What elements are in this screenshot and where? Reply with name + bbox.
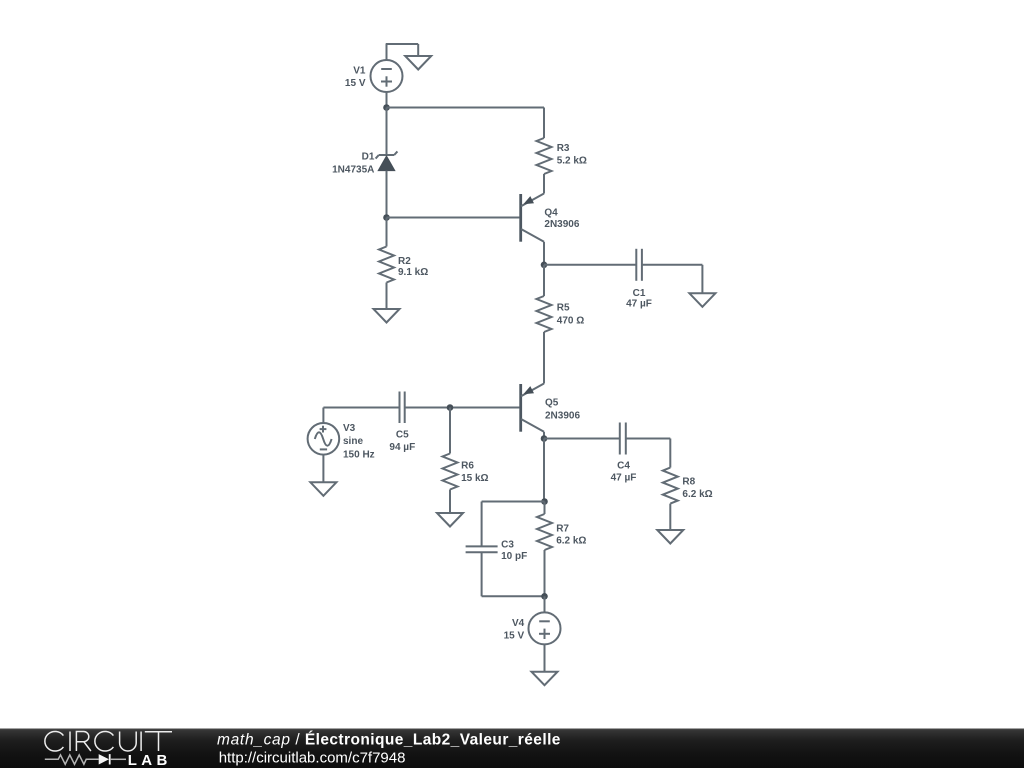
- svg-text:V4: V4: [512, 618, 525, 629]
- label V1 15 V: [345, 66, 366, 90]
- resistor R8 6.2 kohm: [663, 468, 678, 530]
- resistor R5 470 ohm: [537, 265, 552, 384]
- wire node A to R3 top: [387, 107, 545, 109]
- wire V3 top to C5: [323, 408, 399, 424]
- voltage source V1 15 V: [371, 60, 403, 92]
- wire C5 to Q5 base: [405, 407, 520, 409]
- capacitor C5 94 uF: [400, 392, 405, 424]
- transistor Q5 2N3906 PNP: [521, 384, 544, 439]
- svg-text:15 kΩ: 15 kΩ: [461, 473, 488, 484]
- svg-text:V3: V3: [343, 423, 356, 434]
- capacitor C1 47 uF: [636, 249, 642, 281]
- transistor Q4 2N3906 PNP: [387, 194, 545, 265]
- wire node E to C4: [544, 438, 620, 440]
- CircuitLab logo CIRCUIT: [45, 731, 172, 751]
- node A junction dot: [383, 104, 390, 111]
- svg-text:D1: D1: [362, 152, 375, 163]
- ground below R6: [437, 513, 463, 527]
- node E junction dot (Q5 collector): [541, 435, 548, 442]
- node D junction dot (R6 tap): [447, 404, 454, 411]
- svg-text:math_cap / Électronique_Lab2_V: math_cap / Électronique_Lab2_Valeur_réel…: [217, 731, 561, 748]
- svg-text:5.2 kΩ: 5.2 kΩ: [557, 156, 587, 167]
- label Q5 2N3906: [545, 398, 580, 422]
- resistor R3 5.2 kohm: [537, 108, 552, 194]
- svg-text:R5: R5: [557, 303, 570, 314]
- label Q4 2N3906: [544, 208, 579, 231]
- label C1 47 uF: [626, 288, 652, 310]
- svg-text:LAB: LAB: [128, 752, 172, 768]
- ground below V3: [310, 482, 336, 496]
- node F junction dot (R7/C3 top): [541, 498, 548, 505]
- svg-text:R3: R3: [557, 143, 570, 154]
- wire V1 top to ground: [386, 44, 419, 60]
- svg-text:15 V: 15 V: [345, 78, 366, 89]
- svg-text:R2: R2: [398, 256, 411, 267]
- footer bar: [0, 729, 1024, 768]
- label C4 47 uF: [611, 460, 637, 483]
- svg-text:C4: C4: [617, 460, 630, 471]
- sine source V3 150 Hz: [308, 423, 340, 455]
- resistor R7 6.2 kohm: [537, 502, 552, 597]
- svg-text:C1: C1: [633, 288, 646, 299]
- voltage source V4 15 V: [529, 596, 561, 644]
- node G junction dot (R7 bottom / V4 top): [541, 593, 548, 600]
- svg-text:10 pF: 10 pF: [501, 551, 527, 562]
- resistor R2 9.1 kohm: [379, 218, 394, 310]
- resistor R6 15 kohm: [443, 408, 458, 514]
- wire C4 to R8: [626, 439, 671, 468]
- label R5 470: [557, 303, 584, 327]
- capacitor C3 10 pF: [466, 546, 498, 552]
- svg-text:1N4735A: 1N4735A: [332, 164, 374, 175]
- wire D1 anode to node B: [386, 171, 388, 218]
- svg-text:6.2 kΩ: 6.2 kΩ: [556, 535, 586, 546]
- wire V1 bottom to node A: [386, 92, 388, 108]
- label C5 94 uF: [389, 429, 415, 453]
- svg-text:C5: C5: [396, 429, 409, 440]
- svg-text:47 µF: 47 µF: [611, 473, 637, 484]
- wire C3 bottom to node G: [482, 552, 545, 596]
- label C3 10 pF: [501, 539, 527, 562]
- node C junction dot (Q4 collector): [541, 262, 548, 269]
- svg-text:6.2 kΩ: 6.2 kΩ: [682, 489, 712, 500]
- logo resistor-diode symbol: [45, 754, 126, 764]
- label R6 15 k: [461, 460, 488, 484]
- svg-text:15 V: 15 V: [504, 631, 525, 642]
- wire node F left to C3: [482, 502, 545, 547]
- label R3 5.2 k: [557, 143, 587, 167]
- label R2 9.1 k: [398, 256, 428, 278]
- svg-text:R8: R8: [682, 477, 695, 488]
- svg-text:R6: R6: [461, 460, 474, 471]
- svg-text:470 Ω: 470 Ω: [557, 316, 584, 327]
- ground below V4: [532, 672, 558, 686]
- svg-text:150 Hz: 150 Hz: [343, 449, 375, 460]
- svg-text:2N3906: 2N3906: [544, 219, 579, 230]
- label R8 6.2 k: [682, 477, 712, 500]
- label V4 15 V: [504, 618, 525, 641]
- svg-text:9.1 kΩ: 9.1 kΩ: [398, 267, 428, 278]
- wire V4 bottom to ground: [544, 644, 546, 671]
- capacitor C4 47 uF: [620, 423, 626, 455]
- zener diode D1 1N4735A: [376, 151, 398, 170]
- ground right of C1: [689, 293, 715, 307]
- svg-text:sine: sine: [343, 436, 363, 447]
- svg-text:2N3906: 2N3906: [545, 410, 580, 421]
- ground (top, at V1 negative terminal): [405, 56, 431, 70]
- wire node C to C1: [544, 264, 636, 266]
- ground below R8: [657, 530, 683, 544]
- label R7 6.2 k: [556, 524, 586, 547]
- svg-text:C3: C3: [501, 539, 514, 550]
- wire V3 bottom to ground: [322, 455, 324, 483]
- svg-text:94 µF: 94 µF: [389, 442, 415, 453]
- node B junction dot (D1/R2/Q4 base): [383, 214, 390, 221]
- ground below R2: [374, 309, 400, 323]
- label D1 1N4735A: [332, 152, 375, 176]
- wire C1 to ground: [642, 265, 703, 294]
- svg-text:Q4: Q4: [544, 208, 558, 219]
- svg-text:R7: R7: [556, 524, 569, 535]
- svg-text:V1: V1: [353, 66, 366, 77]
- wire node E down to node F: [543, 439, 545, 502]
- svg-text:47 µF: 47 µF: [626, 299, 652, 310]
- svg-text:Q5: Q5: [545, 398, 559, 409]
- label V3 sine 150 Hz: [343, 423, 375, 460]
- wire node A down to D1 cathode: [386, 108, 388, 156]
- svg-text:http://circuitlab.com/c7f7948: http://circuitlab.com/c7f7948: [219, 749, 406, 766]
